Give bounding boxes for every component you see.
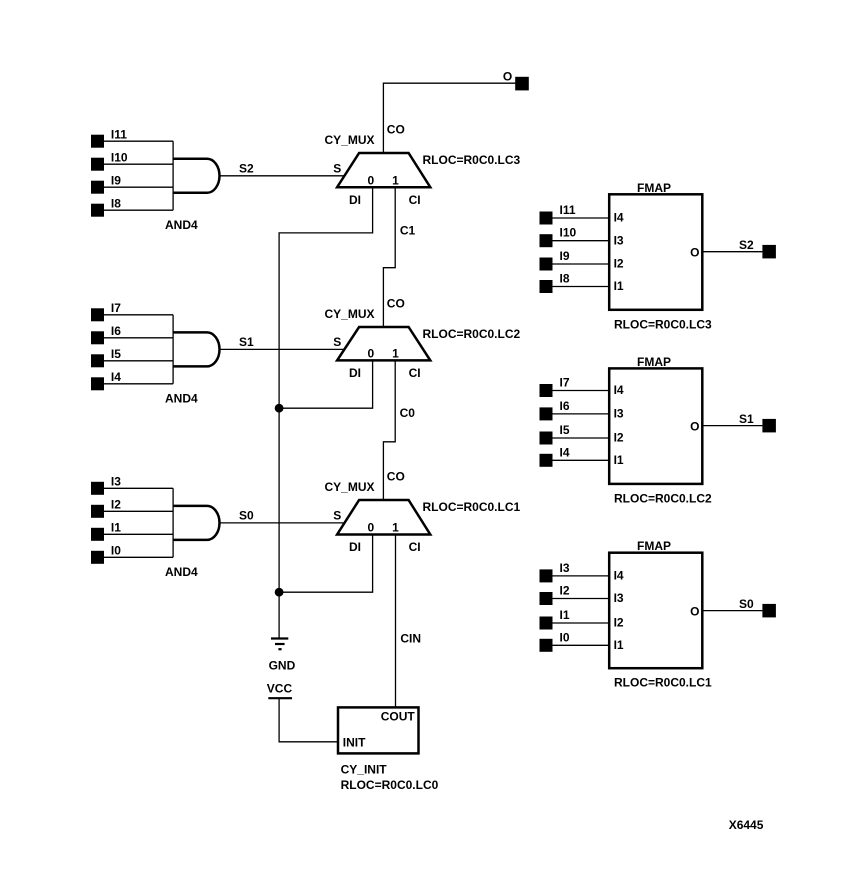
svg-text:GND: GND — [269, 659, 296, 673]
svg-text:I1: I1 — [614, 638, 624, 652]
svg-text:I4: I4 — [614, 569, 624, 583]
svg-text:I3: I3 — [614, 591, 624, 605]
svg-text:S1: S1 — [739, 412, 754, 426]
svg-text:I4: I4 — [614, 383, 624, 397]
input pad I3 — [540, 569, 553, 582]
wire I9 to FMAP I2 — [553, 263, 610, 265]
svg-text:O: O — [503, 69, 512, 83]
svg-text:DI: DI — [349, 540, 361, 554]
input pad I9 — [91, 181, 104, 194]
CY_MUX (middle, RLOC=R0C0.LC2) — [325, 297, 521, 381]
input pad I10 — [91, 158, 104, 171]
input pad I8 — [540, 280, 553, 293]
svg-text:AND4: AND4 — [165, 391, 198, 405]
wire I1 to FMAP I2 — [553, 622, 610, 624]
wire I6 to FMAP I3 — [553, 413, 610, 415]
svg-text:RLOC=R0C0.LC3: RLOC=R0C0.LC3 — [423, 153, 521, 167]
input pad I6 — [91, 331, 104, 344]
svg-text:I1: I1 — [560, 608, 570, 622]
svg-text:S2: S2 — [239, 162, 254, 176]
input pad I7 — [540, 384, 553, 397]
svg-text:CO: CO — [387, 470, 405, 484]
wire I10 to FMAP I3 — [553, 240, 610, 242]
AND4 input side vertical — [172, 488, 174, 557]
FMAP block (top, RLOC=R0C0.LC3) — [540, 181, 776, 331]
input pad I5 — [91, 354, 104, 367]
wire CIN (CI of bottom mux to COUT of CY_INIT) — [395, 535, 397, 708]
input pad I4 — [540, 454, 553, 467]
svg-text:I5: I5 — [560, 423, 570, 437]
svg-text:S1: S1 — [239, 335, 254, 349]
svg-text:RLOC=R0C0.LC0: RLOC=R0C0.LC0 — [341, 778, 439, 792]
output pad S2 — [762, 245, 776, 259]
wire I10 to AND4 — [104, 163, 173, 165]
wire S0 (AND4 output to CY_MUX S) — [220, 522, 346, 524]
CY_MUX (bottom, RLOC=R0C0.LC1) — [325, 470, 521, 555]
input pad I2 — [91, 505, 104, 518]
svg-text:I11: I11 — [560, 203, 576, 217]
wire I3 to AND4 — [104, 487, 173, 489]
wire C1 (CI of top mux to CO of middle mux) — [383, 187, 395, 327]
svg-text:RLOC=R0C0.LC2: RLOC=R0C0.LC2 — [423, 327, 521, 341]
CY_MUX trapezoid body — [337, 500, 430, 535]
wire I11 to AND4 — [104, 140, 173, 142]
FMAP box — [609, 368, 702, 484]
CY_MUX trapezoid body — [337, 153, 430, 187]
input pad I8 — [91, 204, 104, 217]
svg-text:I2: I2 — [614, 431, 624, 445]
svg-text:CY_MUX: CY_MUX — [325, 480, 375, 494]
svg-text:CI: CI — [409, 366, 421, 380]
svg-text:1: 1 — [392, 173, 399, 187]
svg-text:AND4: AND4 — [165, 218, 198, 232]
AND4 gate (inputs I3 I2 I1 I0, output S0) — [91, 475, 345, 579]
output pad S0 — [762, 604, 776, 618]
input pad I3 — [91, 482, 104, 495]
svg-text:I9: I9 — [111, 174, 121, 188]
wire I5 to AND4 — [104, 360, 173, 362]
wire I4 to AND4 — [104, 383, 173, 385]
svg-text:FMAP: FMAP — [637, 181, 671, 195]
svg-text:CO: CO — [387, 123, 405, 137]
svg-text:DI: DI — [349, 366, 361, 380]
svg-text:I11: I11 — [111, 128, 127, 142]
svg-text:RLOC=R0C0.LC3: RLOC=R0C0.LC3 — [614, 317, 712, 331]
wire I2 to FMAP I3 — [553, 598, 610, 600]
FMAP box — [609, 553, 702, 669]
input pad I11 — [540, 212, 553, 225]
svg-text:I6: I6 — [111, 324, 121, 338]
svg-text:0: 0 — [368, 173, 375, 187]
AND4 gate body — [173, 159, 219, 193]
svg-text:I0: I0 — [560, 630, 570, 644]
input pad I4 — [91, 377, 104, 390]
input pad I10 — [540, 234, 553, 247]
svg-text:I0: I0 — [111, 544, 121, 558]
svg-text:1: 1 — [392, 521, 399, 535]
wire DI of middle mux to GND rail — [279, 360, 373, 408]
svg-text:O: O — [690, 605, 699, 619]
svg-text:DI: DI — [349, 193, 361, 207]
CY_INIT block (RLOC=R0C0.LC0) — [338, 707, 439, 792]
svg-text:1: 1 — [392, 347, 399, 361]
svg-text:I8: I8 — [111, 197, 121, 211]
wire I9 to AND4 — [104, 186, 173, 188]
AND4 gate body — [173, 332, 219, 366]
input pad I1 — [540, 617, 553, 630]
wire DI of bottom mux to GND rail — [279, 535, 373, 593]
wire I8 to AND4 — [104, 209, 173, 211]
svg-text:I4: I4 — [614, 211, 624, 225]
svg-text:CI: CI — [409, 193, 421, 207]
wire FMAP O to S1 — [702, 425, 762, 427]
svg-text:CY_MUX: CY_MUX — [325, 133, 375, 147]
FMAP box — [609, 194, 702, 309]
svg-text:RLOC=R0C0.LC1: RLOC=R0C0.LC1 — [423, 500, 521, 514]
input pad I1 — [91, 528, 104, 541]
svg-text:VCC: VCC — [267, 681, 293, 695]
wire S2 (AND4 output to CY_MUX S) — [220, 175, 346, 177]
junction at GND rail / middle DI — [275, 404, 284, 413]
svg-text:I2: I2 — [614, 257, 624, 271]
wire DI of top mux down to GND rail — [279, 187, 373, 638]
CY_MUX trapezoid body — [337, 327, 430, 360]
svg-text:I1: I1 — [111, 521, 121, 535]
junction at GND rail / bottom DI — [275, 588, 284, 597]
svg-text:I5: I5 — [111, 347, 121, 361]
AND4 input side vertical — [172, 315, 174, 384]
svg-text:INIT: INIT — [343, 736, 366, 750]
input pad I0 — [91, 551, 104, 564]
wire I0 to FMAP I1 — [553, 644, 610, 646]
svg-text:I4: I4 — [560, 445, 570, 459]
svg-text:I4: I4 — [111, 370, 121, 384]
FMAP block (middle, RLOC=R0C0.LC2) — [540, 355, 776, 506]
svg-text:X6445: X6445 — [729, 818, 764, 832]
svg-text:I7: I7 — [111, 301, 121, 315]
svg-text:FMAP: FMAP — [637, 539, 671, 553]
wire I4 to FMAP I1 — [553, 459, 610, 461]
AND4 gate (inputs I7 I6 I5 I4, output S1) — [91, 301, 345, 405]
svg-text:RLOC=R0C0.LC1: RLOC=R0C0.LC1 — [614, 676, 712, 690]
svg-text:I9: I9 — [560, 249, 570, 263]
svg-text:AND4: AND4 — [165, 565, 198, 579]
wire C0 (CI of middle mux to CO of bottom mux) — [383, 360, 395, 500]
input pad I5 — [540, 432, 553, 445]
svg-text:S2: S2 — [739, 238, 754, 252]
svg-text:CI: CI — [409, 540, 421, 554]
wire FMAP O to S2 — [702, 251, 762, 253]
wire I6 to AND4 — [104, 337, 173, 339]
svg-text:CY_INIT: CY_INIT — [341, 763, 388, 777]
ground symbol GND — [269, 639, 296, 673]
wire I0 to AND4 — [104, 556, 173, 558]
svg-text:I3: I3 — [614, 407, 624, 421]
wire I11 to FMAP I4 — [553, 217, 610, 219]
svg-text:I1: I1 — [614, 453, 624, 467]
svg-text:CIN: CIN — [400, 631, 421, 645]
wire S1 (AND4 output to CY_MUX S) — [220, 348, 346, 350]
wire I5 to FMAP I2 — [553, 437, 610, 439]
svg-text:I7: I7 — [560, 376, 570, 390]
input pad I7 — [91, 308, 104, 321]
svg-text:COUT: COUT — [381, 710, 416, 724]
wire I8 to FMAP I1 — [553, 286, 610, 288]
svg-text:I3: I3 — [560, 561, 570, 575]
svg-text:FMAP: FMAP — [637, 355, 671, 369]
input pad I0 — [540, 639, 553, 652]
svg-text:0: 0 — [368, 521, 375, 535]
pin pad output O — [515, 77, 529, 91]
svg-text:S0: S0 — [239, 509, 254, 523]
svg-text:C1: C1 — [400, 223, 416, 237]
wire I7 to AND4 — [104, 314, 173, 316]
svg-text:I2: I2 — [614, 616, 624, 630]
input pad I2 — [540, 592, 553, 605]
wire CO of top CY_MUX to output O — [383, 83, 515, 153]
svg-text:I1: I1 — [614, 279, 624, 293]
CY_MUX (top, RLOC=R0C0.LC3) — [325, 123, 521, 207]
AND4 input side vertical — [172, 141, 174, 210]
svg-text:S: S — [333, 509, 341, 523]
svg-text:RLOC=R0C0.LC2: RLOC=R0C0.LC2 — [614, 491, 712, 505]
svg-text:S0: S0 — [739, 597, 754, 611]
FMAP block (bottom, RLOC=R0C0.LC1) — [540, 539, 776, 690]
svg-text:CO: CO — [387, 297, 405, 311]
svg-text:I10: I10 — [560, 226, 577, 240]
svg-text:I2: I2 — [560, 584, 570, 598]
AND4 gate body — [173, 506, 219, 540]
wire I3 to FMAP I4 — [553, 575, 610, 577]
input pad I9 — [540, 258, 553, 271]
output pad S1 — [762, 419, 776, 433]
wire I7 to FMAP I4 — [553, 390, 610, 392]
input pad I11 — [91, 135, 104, 148]
svg-text:CY_MUX: CY_MUX — [325, 307, 375, 321]
wire I1 to AND4 — [104, 533, 173, 535]
power symbol VCC — [267, 681, 293, 698]
svg-text:O: O — [690, 420, 699, 434]
svg-text:0: 0 — [368, 347, 375, 361]
input pad I6 — [540, 407, 553, 420]
svg-text:O: O — [690, 246, 699, 260]
wire I2 to AND4 — [104, 510, 173, 512]
wire VCC to INIT pin of CY_INIT — [279, 698, 338, 742]
svg-text:I2: I2 — [111, 498, 121, 512]
svg-text:I3: I3 — [614, 233, 624, 247]
svg-text:I8: I8 — [560, 272, 570, 286]
svg-text:C0: C0 — [400, 406, 416, 420]
wire FMAP O to S0 — [702, 610, 762, 612]
svg-text:S: S — [333, 335, 341, 349]
svg-text:S: S — [333, 162, 341, 176]
svg-text:I10: I10 — [111, 151, 128, 165]
AND4 gate (inputs I11 I10 I9 I8, output S2) — [91, 128, 345, 232]
svg-text:I6: I6 — [560, 399, 570, 413]
svg-text:I3: I3 — [111, 475, 121, 489]
